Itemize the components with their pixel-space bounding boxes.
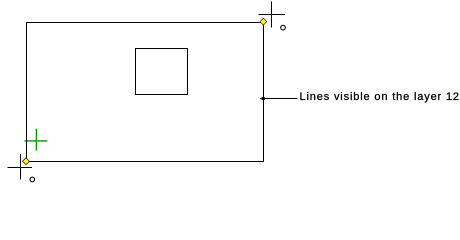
wire: outer package rectangle outline bbox=[27, 23, 264, 162]
small circle marker bottom-left bbox=[30, 177, 35, 182]
wire: inner square hole outline bbox=[136, 49, 188, 95]
green crosshair (layer origin) bottom-left bbox=[25, 129, 48, 151]
svg-text:Lines visible on the layer 12: Lines visible on the layer 12 bbox=[300, 91, 460, 103]
small circle marker top-right bbox=[281, 25, 286, 30]
node: junction dot on right edge bbox=[261, 97, 265, 101]
vertex marker (yellow diamond) top-right: yellow fill bbox=[260, 19, 266, 25]
vertex marker (yellow diamond) top-right: black outline bbox=[260, 18, 268, 26]
label: Lines visible on the layer 12 bbox=[300, 91, 460, 103]
node: junction dot left speck bbox=[260, 98, 261, 99]
vertex marker (yellow diamond) bottom-left: black outline bbox=[22, 157, 30, 165]
vertex marker (yellow diamond) bottom-left: yellow fill bbox=[23, 158, 29, 164]
wire: leader line to label bbox=[264, 98, 298, 100]
crosshair marker bottom-left bbox=[8, 154, 33, 180]
crosshair marker top-right bbox=[259, 2, 286, 28]
